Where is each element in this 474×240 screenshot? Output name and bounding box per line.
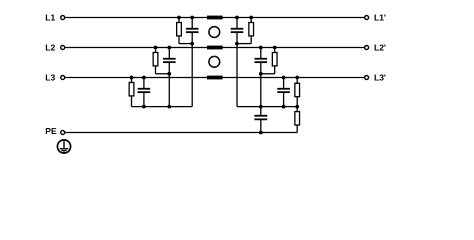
choke core circle lower [209, 56, 220, 67]
protective earth symbol [57, 140, 70, 153]
wire dropper L2-left to star bus [168, 74, 170, 107]
terminal L3 [61, 76, 65, 80]
wire PE [65, 132, 297, 134]
wire minibus L1-right [237, 43, 251, 45]
choke winding L1 [207, 16, 223, 20]
choke core circle upper [209, 27, 220, 38]
wire minibus L2-left [156, 73, 170, 75]
capacitor L1-right [231, 18, 244, 44]
wire minibus L2-right [261, 73, 275, 75]
capacitor L1-left [186, 18, 199, 44]
resistor L2-right [272, 48, 277, 74]
svg-text:L2: L2 [45, 42, 55, 52]
wire dropper L1-right to star bus [236, 44, 238, 107]
svg-text:PE: PE [45, 126, 57, 136]
wire L1 [65, 17, 364, 19]
wire star bus left [132, 106, 193, 108]
wire star bus right [237, 106, 297, 108]
resistor L3-right [295, 78, 300, 107]
junction dots minibus [190, 42, 194, 46]
capacitor L2-right [255, 48, 268, 74]
resistor L1-left [177, 18, 182, 44]
svg-text:L3: L3 [45, 72, 55, 82]
resistor L1-right [249, 18, 254, 44]
terminal L1 [61, 16, 65, 20]
capacitor star-to-PE [254, 107, 267, 133]
capacitor L3-right [277, 78, 290, 107]
svg-text:L1': L1' [374, 12, 386, 22]
terminal L1' [365, 16, 369, 20]
terminal L3' [365, 76, 369, 80]
terminal PE [61, 131, 65, 135]
junction dots L2 [154, 46, 158, 50]
choke winding L2 [207, 46, 223, 50]
wire L3 [65, 77, 364, 79]
junction dot PE [259, 131, 263, 135]
resistor L2-left [153, 48, 158, 74]
wire minibus L1-left [179, 43, 192, 45]
svg-text:L2': L2' [374, 42, 386, 52]
svg-text:L3': L3' [374, 72, 386, 82]
resistor L3-left [129, 78, 134, 107]
terminal L2 [61, 46, 65, 50]
choke winding L3 [207, 76, 223, 80]
capacitor L3-left [138, 78, 151, 107]
junction dots L3 [130, 76, 134, 80]
junction dots star bus [142, 105, 146, 109]
wire dropper L1-left to star bus [191, 44, 193, 107]
junction dots L1 [177, 16, 181, 20]
wire dropper L2-right to star bus [260, 74, 262, 107]
capacitor L2-left [163, 48, 176, 74]
svg-text:L1: L1 [45, 12, 55, 22]
wire L2 [65, 47, 364, 49]
terminal L2' [365, 46, 369, 50]
resistor star-to-PE [295, 107, 300, 133]
